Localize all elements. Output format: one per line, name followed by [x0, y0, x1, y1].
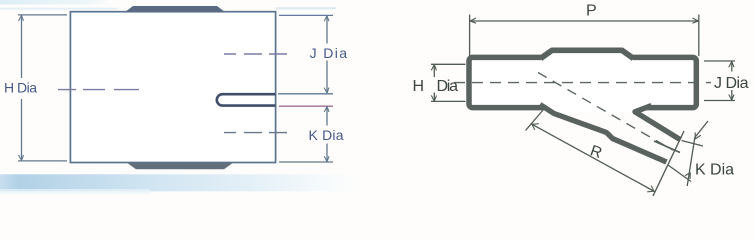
- centerline H (dashed): [58, 89, 139, 91]
- dimension H arrow bottom: [19, 155, 24, 160]
- faint blue line top-right of left view: [276, 7, 336, 9]
- svg-text:H Dia: H Dia: [4, 80, 37, 96]
- dimension K2 extension lower: [668, 165, 691, 182]
- dimension H2 arrow bottom: [431, 95, 436, 101]
- svg-text:J Dia: J Dia: [714, 75, 749, 92]
- dimension J2 arrow bottom: [729, 95, 734, 101]
- faint blue line top-left: [0, 8, 118, 10]
- dimension P extension right: [698, 15, 700, 57]
- branch end inner line: [654, 141, 680, 153]
- dimension H2 extension top: [431, 63, 466, 65]
- dimension R start tick: [526, 110, 544, 131]
- dimension K2 line: [687, 121, 708, 186]
- dimension J arrow top: [324, 16, 329, 21]
- branch upper wall: [635, 106, 681, 140]
- erase top edge for hump: [541, 53, 633, 62]
- dimension J extension top: [279, 14, 333, 16]
- centerline main (dashed): [454, 82, 711, 84]
- dimension R arrow start: [532, 124, 539, 130]
- branch end face line: [653, 131, 684, 196]
- svg-text:P: P: [586, 3, 597, 20]
- dimension H2 arrow top: [431, 65, 436, 71]
- dimension K extension top (magenta tint): [279, 105, 333, 107]
- dimension K extension bottom: [279, 161, 333, 163]
- dimension H2 line: [433, 65, 435, 78]
- erase bottom edge for branch opening: [543, 100, 646, 113]
- bottom weld band: [127, 163, 233, 170]
- dimension K arrow bottom: [324, 156, 329, 161]
- branch lower wall: [540, 105, 667, 163]
- dimension H line: [21, 15, 23, 78]
- dimension H extension top: [18, 14, 67, 16]
- dimension P arrow left: [470, 18, 476, 23]
- svg-text:K Dia: K Dia: [695, 162, 734, 179]
- body outline rectangle: [70, 12, 275, 163]
- dimension H extension bottom: [18, 160, 67, 162]
- dimension R arrow end: [647, 186, 654, 192]
- dimension K line: [326, 106, 328, 125]
- dimension P extension left: [469, 15, 471, 57]
- dimension J line: [326, 16, 328, 44]
- dimension J2 extension bottom: [704, 100, 735, 102]
- dimension J2 arrow top: [729, 61, 734, 67]
- top-left pale blue band: [0, 0, 112, 5]
- dimension R line: [532, 124, 655, 192]
- dimension P arrow right: [692, 18, 698, 23]
- svg-text:J Dia: J Dia: [310, 45, 348, 61]
- lateral body outline: [469, 57, 696, 107]
- dimension H arrow top: [19, 15, 24, 20]
- dimension K arrow top: [324, 107, 329, 112]
- centerline branch (dashed): [538, 73, 673, 151]
- dimension K2 arrow upper: [695, 133, 701, 140]
- dimension K2 arrow lower: [685, 173, 690, 180]
- dimension K2 extension upper: [682, 141, 704, 147]
- dimension J2 extension top: [704, 60, 735, 62]
- blue swoosh band bottom-left: [0, 174, 362, 191]
- centerline J branch (dashed): [224, 53, 287, 55]
- dimension J extension bottom: [278, 93, 333, 95]
- svg-text:K Dia: K Dia: [309, 127, 344, 143]
- socket notch: [217, 94, 276, 105]
- dimension J2 line: [731, 61, 733, 71]
- centerline K branch (dashed): [224, 132, 287, 134]
- top weld band: [125, 6, 226, 12]
- top hump band: [541, 50, 634, 58]
- dimension P line: [470, 20, 699, 22]
- dimension J arrow bottom: [324, 88, 329, 93]
- dimension H2 extension bottom: [431, 100, 466, 102]
